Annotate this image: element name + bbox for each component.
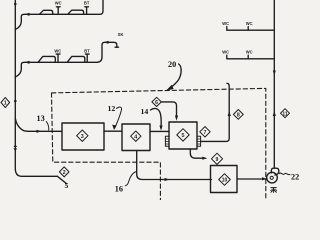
svg-text:5: 5 [182, 133, 185, 139]
svg-text:BT: BT [84, 48, 90, 53]
svg-text:1: 1 [4, 101, 7, 107]
flange right unit5 [197, 136, 201, 146]
trap tick WC lower mid [247, 55, 249, 59]
svg-text:3: 3 [81, 134, 84, 140]
svg-text:WC: WC [222, 49, 229, 54]
svg-text:13: 13 [37, 114, 45, 123]
wire unit5 bottom to diamond 9 [190, 149, 203, 158]
svg-text:BT: BT [84, 1, 90, 6]
diamond tag 3 [77, 130, 88, 141]
pipe break symbol on riser [14, 144, 18, 147]
arrow flow into unit 3 [37, 130, 42, 133]
wire unit4 bottom to unit10 [137, 151, 212, 180]
pump 22 body circle [267, 172, 278, 183]
arrow flow up pipe 8 [228, 111, 231, 116]
valve diamond 9 [211, 153, 222, 164]
wire left soil riser [15, 0, 57, 176]
svg-text:8: 8 [237, 113, 240, 119]
wire unit5 outlet to riser 8 [201, 83, 230, 141]
leader 16 [125, 172, 136, 186]
svg-text:SK: SK [118, 32, 124, 37]
leader 12 [115, 107, 122, 128]
svg-text:16: 16 [115, 185, 123, 194]
node riser top junction [14, 3, 17, 6]
wire unit10 to pump [237, 178, 267, 180]
wire overflow diagonal to outlet 5 [57, 176, 66, 184]
svg-text:14: 14 [141, 107, 149, 116]
valve diamond 7 [200, 127, 210, 137]
node boundary 20 dashed frame [52, 88, 266, 200]
pump 22 volute [271, 168, 279, 175]
valve diamond 2 [59, 167, 69, 177]
unit box 3 [62, 123, 104, 150]
leader 14 [151, 108, 162, 128]
svg-text:9: 9 [216, 157, 219, 163]
svg-text:WC: WC [246, 21, 253, 26]
svg-text:WC: WC [246, 49, 253, 54]
wire riser to unit 3 [15, 119, 62, 132]
trap T BT floor2 [85, 54, 89, 62]
arrow flow sink branch [104, 41, 109, 44]
svg-text:WC: WC [55, 1, 62, 6]
fixture tub WC floor1 [40, 10, 53, 14]
leader 13 [46, 122, 48, 131]
wire unit4 to unit5 [150, 130, 169, 132]
unit box 4 [122, 124, 150, 151]
svg-text:WC: WC [54, 48, 61, 53]
wire WC branch upper [227, 27, 274, 31]
trap tick WC upper mid [247, 27, 249, 31]
fixture tub WC floor2 [38, 56, 55, 62]
flange left unit5 [165, 136, 169, 146]
trap T BT floor1 [85, 7, 89, 14]
fixture tub BT floor2 [67, 56, 85, 62]
trap T WC floor1 [56, 7, 60, 14]
arrow flow floor1 [25, 13, 30, 16]
svg-text:4: 4 [134, 134, 137, 140]
fixture tub BT floor1 [68, 10, 84, 14]
svg-text:5: 5 [65, 181, 69, 190]
label pump CJK [271, 187, 277, 192]
arrow flow to unit10 [165, 178, 170, 181]
arrow mark on supply main upper [273, 71, 276, 76]
svg-text:6: 6 [155, 100, 158, 106]
pump 22 hub [270, 176, 273, 179]
valve diamond 1 [1, 97, 10, 107]
valve diamond 6 [152, 97, 161, 106]
svg-text:22: 22 [291, 172, 299, 181]
diamond tag 10 [219, 174, 231, 186]
valve diamond 8 [233, 110, 243, 120]
wire unit3 to unit4 [104, 130, 122, 132]
wire right supply main [273, 0, 275, 168]
svg-text:WC: WC [222, 21, 229, 26]
wire WC branch lower [227, 55, 274, 59]
arrow leader 20 [169, 64, 181, 89]
trap T WC floor2 [56, 54, 60, 62]
arrow flow floor2 [25, 61, 30, 64]
valve diamond 11 [281, 109, 290, 118]
wire drain branch floor2 [15, 42, 117, 77]
arrow flow into pump [262, 177, 267, 180]
svg-text:2: 2 [63, 170, 66, 176]
leader 22 squiggle [279, 173, 290, 175]
node riser junction mid [14, 100, 17, 103]
diamond tag 5 [177, 129, 189, 141]
svg-text:11: 11 [282, 111, 288, 117]
diamond tag 4 [131, 131, 141, 141]
trap tick SK [115, 46, 118, 48]
unit box 5 [169, 122, 197, 149]
unit box 10 [211, 166, 238, 193]
wire drain branch floor1 [15, 0, 103, 30]
arrow mark on supply main lower [273, 111, 276, 116]
svg-text:12: 12 [108, 104, 116, 113]
wire dosing into unit5 top [161, 102, 176, 117]
svg-text:7: 7 [204, 130, 207, 136]
svg-text:20: 20 [168, 60, 176, 69]
svg-text:10: 10 [222, 178, 228, 184]
